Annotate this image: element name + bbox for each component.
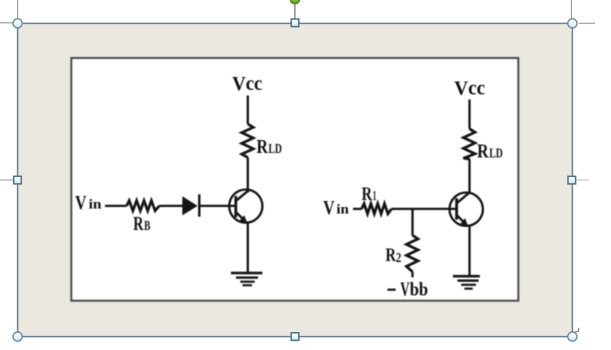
svg-text:2: 2	[396, 251, 401, 266]
svg-text:Vcc: Vcc	[232, 73, 262, 95]
ground (right) bar 1	[453, 275, 480, 278]
guide line left-middle horizontal	[0, 179, 13, 181]
svg-text:B: B	[144, 218, 150, 233]
ground (right) bar 4	[464, 288, 472, 290]
label Vin (left)	[75, 192, 102, 214]
node junction to R2	[411, 209, 413, 236]
svg-text:R: R	[386, 245, 397, 266]
label RB	[133, 213, 150, 235]
svg-text:Vcc: Vcc	[454, 77, 485, 99]
diode D cathode bar	[198, 194, 200, 216]
label R2	[386, 245, 402, 266]
svg-text:in: in	[89, 196, 103, 211]
corner handle bottom-left	[13, 332, 22, 341]
white circuit frame	[71, 58, 518, 301]
guide line top-right vertical	[570, 0, 572, 19]
wire Vcc to RLD (left)	[247, 96, 249, 125]
svg-text:V: V	[75, 192, 87, 214]
svg-text:R: R	[133, 213, 144, 235]
guide line right-middle horizontal	[576, 179, 589, 181]
ground (left) bar 2	[236, 276, 258, 278]
resistor R1 zigzag	[362, 204, 392, 214]
resistor RLD (left) zigzag	[242, 124, 254, 157]
wire R2 to -Vbb	[411, 272, 413, 278]
svg-text:in: in	[336, 201, 349, 216]
wire Vin to RB	[105, 205, 127, 207]
wire emitter to ground (right)	[468, 226, 470, 275]
guide line top-left horizontal	[0, 22, 14, 24]
wire emitter to ground (left)	[247, 223, 249, 272]
wire diode to base (left)	[201, 205, 236, 207]
label Vin (right)	[323, 197, 349, 219]
edge handle top	[291, 19, 299, 27]
transistor Q2 base bar	[455, 198, 458, 219]
label Vcc (right)	[454, 77, 485, 99]
guide line top-right horizontal	[579, 22, 595, 24]
ground (right) bar 2	[457, 279, 478, 281]
svg-text:R: R	[257, 136, 269, 158]
ground (left) bar 4	[243, 284, 253, 286]
wire RLD to collector (left)	[247, 157, 249, 192]
guide line top-left vertical	[17, 0, 19, 19]
transistor Q1 base bar	[234, 196, 237, 217]
label R1	[362, 184, 377, 205]
svg-text:LD: LD	[489, 146, 503, 161]
svg-text:LD: LD	[268, 141, 282, 156]
label -Vbb text	[400, 279, 428, 301]
ground (right) bar 3	[461, 284, 476, 286]
transistor Q2 emitter diagonal	[457, 215, 466, 224]
corner handle top-right	[568, 19, 577, 28]
transistor Q2 circle	[450, 193, 483, 226]
svg-text:V: V	[323, 197, 335, 219]
label RLD (left)	[257, 136, 283, 158]
corner handle top-left	[13, 19, 22, 28]
corner handle bottom-right	[568, 332, 577, 341]
transistor Q1 collector diagonal	[236, 190, 248, 200]
transistor Q2 emitter arrowhead	[460, 218, 468, 226]
edge handle bottom	[291, 333, 299, 341]
edge handle left	[14, 176, 22, 184]
ground (left) bar 3	[240, 281, 254, 283]
svg-text:V: V	[400, 279, 410, 301]
rotation handle (green)	[290, 0, 299, 4]
edge handle right	[568, 176, 576, 184]
svg-text:1: 1	[373, 189, 377, 204]
resistor R2 zigzag	[406, 235, 418, 271]
ground (left) bar 1	[231, 272, 263, 275]
wire R1 to base (right)	[392, 208, 456, 210]
resistor RB zigzag	[127, 201, 160, 211]
wire RB to diode	[159, 205, 182, 207]
label Vcc (left)	[232, 73, 262, 95]
rotation handle stem	[294, 5, 296, 20]
wire Vin to R1	[353, 208, 362, 210]
cursor mark near bottom-right handle	[574, 328, 579, 332]
transistor Q1 circle	[229, 190, 262, 223]
svg-text:R: R	[477, 141, 489, 163]
resistor RLD (right) zigzag	[463, 129, 475, 159]
diode D anode triangle	[182, 196, 197, 215]
label -Vbb minus sign	[387, 289, 395, 291]
svg-text:bb: bb	[410, 281, 428, 301]
transistor Q1 emitter arrowhead	[240, 215, 248, 223]
transistor Q2 collector diagonal	[457, 192, 470, 203]
wire Vcc to RLD (right)	[468, 100, 470, 129]
transistor Q1 emitter diagonal	[236, 212, 245, 221]
label RLD (right)	[477, 141, 503, 163]
wire RLD to collector (right)	[468, 159, 470, 194]
